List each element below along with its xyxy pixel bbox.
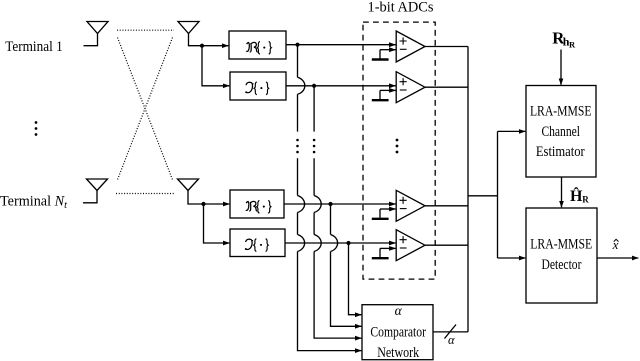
comparator C4 <box>372 230 425 261</box>
svg-text:1-bit ADCs: 1-bit ADCs <box>368 0 434 16</box>
wire Re2 out with hops <box>284 203 396 205</box>
label Re1 fraktur R <box>246 41 271 54</box>
wire vertical bus 4 from Im2 <box>349 243 362 315</box>
node junction Im1 out <box>312 84 316 88</box>
channel dotted line bottom <box>116 193 175 195</box>
block LRA-MMSE Channel Estimator <box>526 86 596 178</box>
block Im2 box <box>230 229 285 257</box>
svg-text:x: x <box>612 237 619 252</box>
wire C3 out <box>425 205 468 207</box>
channel dotted diagonal 1 <box>118 38 174 182</box>
channel dotted line top <box>117 29 174 31</box>
node junction RXNt <box>201 202 205 206</box>
wire Im1 out <box>286 85 396 87</box>
antenna TX1 <box>84 22 109 46</box>
label Im1 fraktur I <box>246 82 269 95</box>
svg-text:Ĥ: Ĥ <box>570 186 583 205</box>
svg-text:Detector: Detector <box>542 257 582 273</box>
comparator C2 <box>372 72 425 103</box>
wire C4 out <box>425 244 468 246</box>
wire detector output <box>597 257 638 259</box>
block comparator network <box>362 305 433 360</box>
wire RX1 down to Im box <box>202 46 229 86</box>
antenna TXNt <box>83 179 108 203</box>
svg-text:Estimator: Estimator <box>536 144 585 160</box>
label Im2 fraktur I <box>246 239 269 252</box>
label Re2 fraktur R <box>246 200 271 213</box>
svg-text:R: R <box>569 39 576 49</box>
wire bus tap to splitter <box>468 195 498 197</box>
wire ADC output bus vertical <box>467 47 469 332</box>
vertical dots ADC <box>396 139 399 154</box>
svg-text:LRA-MMSE: LRA-MMSE <box>530 104 592 120</box>
node junction Im2 out <box>346 241 350 245</box>
node junction RX1 <box>200 44 204 48</box>
vertical dots bus 2 <box>313 139 316 154</box>
dashed box ADCs <box>363 22 435 279</box>
wire vertical bus 1 from Re1 (with hops over crossing lines) <box>298 45 362 351</box>
svg-text:Terminal 1: Terminal 1 <box>5 39 63 55</box>
vertical dots between terminals <box>35 121 38 136</box>
comparator C3 <box>372 190 425 221</box>
block Re2 box <box>230 190 284 218</box>
svg-text:Terminal Nt: Terminal Nt <box>0 194 68 212</box>
wire comparator network output to bus <box>433 331 468 333</box>
wire splitter vertical <box>497 131 499 258</box>
wire RXNt to Re box <box>204 203 230 205</box>
wire estimator to detector <box>560 177 562 207</box>
node junction Re1 out <box>295 43 299 47</box>
svg-text:Comparator: Comparator <box>370 324 426 340</box>
wire vertical bus 2 from Im1 (with hops) <box>314 86 361 338</box>
node junction Re2 out <box>328 202 332 206</box>
wire Re1 out <box>286 44 396 46</box>
comparator C1 <box>372 31 425 62</box>
antenna RX1 <box>178 22 202 46</box>
wire R_hR into estimator <box>560 50 562 85</box>
svg-text:α: α <box>395 303 403 318</box>
vertical dots bus 1 <box>296 139 299 154</box>
block Re1 box <box>229 31 286 59</box>
antenna RXNt <box>178 179 204 204</box>
wire C2 out <box>425 86 468 88</box>
wire Im2 out <box>285 242 396 244</box>
slash bus width mark <box>445 325 457 339</box>
svg-text:LRA-MMSE: LRA-MMSE <box>530 237 592 253</box>
wire into detector <box>498 257 526 259</box>
svg-text:R: R <box>582 195 589 205</box>
block LRA-MMSE Detector <box>526 208 597 303</box>
wire vertical bus 3 from Re2 (with hop) <box>331 204 362 326</box>
svg-text:Channel: Channel <box>541 124 580 140</box>
block Im1 box <box>230 72 286 100</box>
channel dotted diagonal 2 <box>117 38 173 182</box>
wire C1 out <box>425 46 468 48</box>
wire RXNt down to Im box <box>204 204 230 243</box>
svg-text:α: α <box>448 333 455 347</box>
svg-text:Network: Network <box>377 345 420 361</box>
wire RX1 to Re box <box>202 45 228 47</box>
wire into channel estimator <box>498 130 526 132</box>
